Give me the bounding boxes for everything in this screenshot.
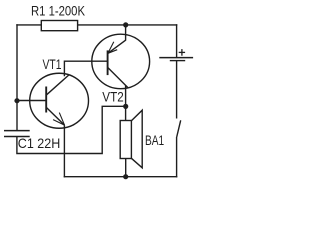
- svg-text:R1 1-200K: R1 1-200K: [31, 3, 86, 19]
- wire: speaker bottom lead: [125, 159, 127, 177]
- switch SA1 (open blade): [177, 120, 181, 137]
- junction: speaker node on bottom rail: [123, 174, 128, 179]
- junction: VT2 emitter on top rail: [123, 22, 128, 27]
- wire: battery top lead (top rail corner down to + plate): [176, 24, 178, 57]
- wire: battery negative down to switch: [176, 61, 178, 119]
- resistor R1: [41, 21, 77, 31]
- transistor VT1 (NPN): [30, 73, 89, 128]
- junction: VT2 collector / speaker top node: [123, 104, 128, 109]
- svg-text:VT1: VT1: [43, 56, 62, 72]
- transistor VT2 (PNP): [92, 34, 150, 88]
- svg-text:VT2: VT2: [102, 88, 124, 104]
- wire: top rail right segment (R1 to battery corner): [78, 24, 178, 26]
- wire: VT1 base lead: [17, 100, 46, 102]
- wire: C1 bottom plate to VT2 collector node (feedback path): [17, 106, 126, 153]
- wire: bottom rail: [64, 176, 178, 178]
- wire: top rail left segment (left branch to R1): [16, 24, 41, 26]
- wire: left vertical (top rail down to C1 top plate): [16, 24, 18, 130]
- battery GB1: [159, 49, 193, 61]
- capacitor C1: [4, 131, 30, 137]
- wire: VT2 collector lead down to speaker: [125, 85, 127, 120]
- wire: VT2 emitter lead from top-rail junction: [125, 25, 127, 41]
- wire: switch to bottom rail: [176, 137, 178, 177]
- speaker BA1: [120, 110, 142, 168]
- wire: VT1 emitter down to bottom rail: [63, 125, 65, 177]
- svg-text:BA1: BA1: [145, 132, 164, 148]
- junction: VT1 base node on left wire: [14, 98, 19, 103]
- svg-text:C1 22H: C1 22H: [18, 135, 61, 151]
- wire: VT1 collector up and over to VT2 base: [64, 61, 107, 76]
